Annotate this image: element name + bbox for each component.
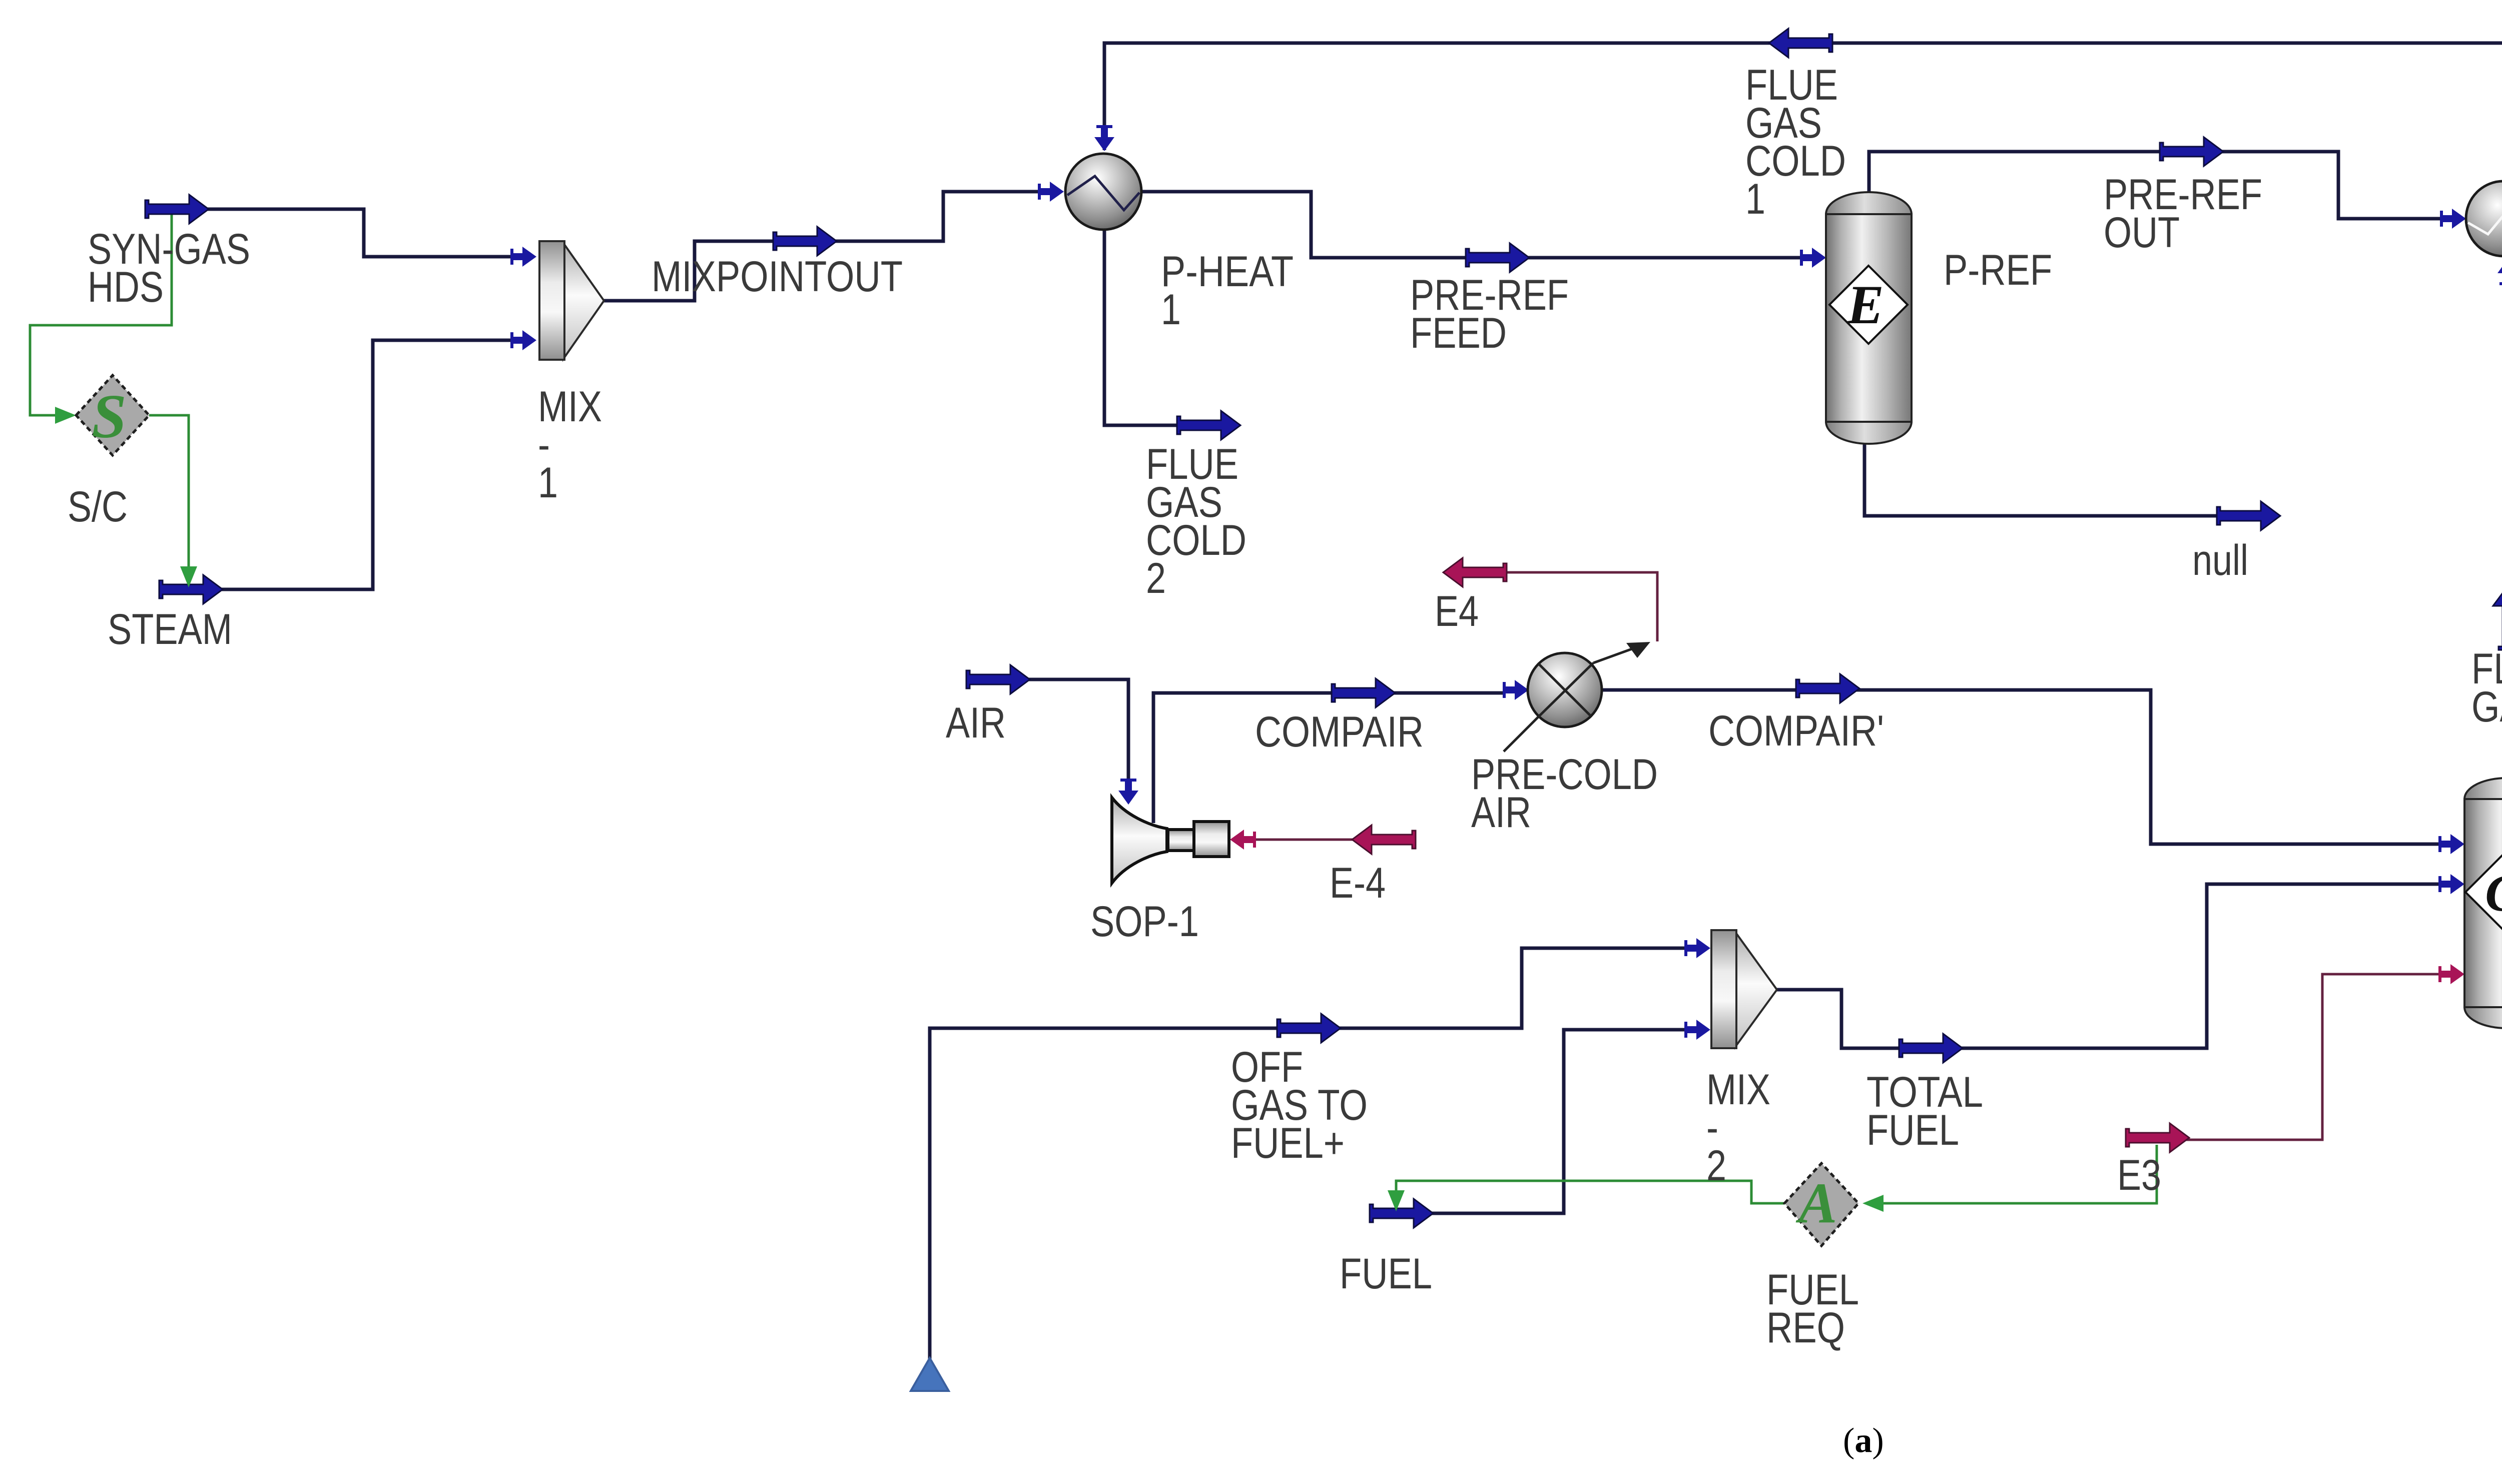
arrowhead green onto FUEL bbox=[1388, 1190, 1405, 1211]
svg-text:GAS: GAS bbox=[2471, 683, 2502, 731]
svg-text:P-REF: P-REF bbox=[1944, 246, 2052, 294]
reactor P-REF bbox=[1826, 192, 1912, 444]
wire COMPAIR' bbox=[1602, 690, 2442, 844]
label PRE-COLD AIR bbox=[1471, 751, 1658, 837]
label TOTAL FUEL bbox=[1866, 1068, 1983, 1154]
svg-text:null: null bbox=[2192, 536, 2248, 584]
label MIXPOINTOUT bbox=[652, 253, 903, 301]
arrowhead into P-HEAT-2 left bbox=[2440, 209, 2466, 229]
label PRE-REF FEED bbox=[1410, 271, 1569, 357]
wire FUEL to MIX-2 bbox=[1423, 1030, 1687, 1213]
arrow FUEL feed bbox=[1370, 1199, 1433, 1228]
cooler PRE-COLD-AIR bbox=[1504, 642, 1650, 752]
arrowhead into SOP-1 box maroon bbox=[1230, 830, 1256, 850]
arrowhead into SOP-1 bbox=[1118, 779, 1138, 805]
wire PRE-REF-OUT bbox=[1869, 152, 2442, 219]
label S/C bbox=[68, 483, 128, 531]
label FLUE GAS COLD 1 bbox=[1745, 61, 1846, 223]
label P-HEAT 1 bbox=[1161, 248, 1294, 334]
label SYN-GAS HDS bbox=[88, 225, 250, 311]
arrowhead into MIX-2 top bbox=[1684, 938, 1710, 958]
label MIX-2 bbox=[1706, 1066, 1770, 1190]
svg-text:HDS: HDS bbox=[88, 263, 164, 311]
arrow STEAM feed bbox=[159, 575, 223, 604]
arrow FLUE-GAS-COLD-1 bbox=[1769, 29, 1832, 58]
arrow COMPAIR' bbox=[1796, 674, 1859, 703]
svg-text:COMPAIR: COMPAIR bbox=[1255, 708, 1424, 756]
svg-text:FUEL: FUEL bbox=[1866, 1106, 1959, 1154]
arrow COMPAIR bbox=[1332, 678, 1395, 707]
wire signal E3 to FUEL-REQ bbox=[1882, 1145, 2157, 1203]
wire TOTAL-FUEL bbox=[1777, 884, 2442, 1048]
label STEAM bbox=[108, 605, 232, 653]
svg-text:S/C: S/C bbox=[68, 483, 128, 531]
arrowhead green into FUEL-REQ bbox=[1862, 1195, 1884, 1212]
arrow TOTAL-FUEL bbox=[1899, 1034, 1963, 1063]
label FUEL bbox=[1340, 1250, 1432, 1298]
svg-text:G: G bbox=[2485, 864, 2502, 922]
wire FLUE-GAS-COLD-2 bbox=[1104, 230, 1177, 425]
label MIX-1 bbox=[538, 383, 602, 507]
arrow FLUE-GAS up bbox=[2493, 586, 2502, 650]
wire AIR to SOP-1 bbox=[1019, 679, 1128, 801]
svg-text:AIR: AIR bbox=[1471, 789, 1531, 837]
arrow E-4 feed bbox=[1352, 825, 1416, 854]
label SOP-1 bbox=[1090, 898, 1199, 946]
wire FLUE-GAS-COLD-1 return bbox=[1104, 43, 2502, 183]
svg-text:1: 1 bbox=[1161, 286, 1181, 334]
arrow SYN-GAS feed bbox=[145, 195, 209, 224]
wire signal S/C to STEAM bbox=[149, 415, 189, 576]
svg-text:E4: E4 bbox=[1435, 587, 1479, 635]
wire signal FUEL-REQ to FUEL bbox=[1396, 1181, 1785, 1205]
calculator FUEL-REQ bbox=[1784, 1163, 1858, 1246]
arrow E3 feed bbox=[2126, 1123, 2189, 1152]
wire PRE-REF-FEED bbox=[1141, 192, 1804, 258]
svg-text:AIR: AIR bbox=[946, 699, 1006, 747]
arrowhead into REF-F in2 bbox=[2438, 874, 2464, 894]
arrow OFF-GAS bbox=[1277, 1014, 1341, 1043]
svg-text:STEAM: STEAM bbox=[108, 605, 232, 653]
label FUEL REQ bbox=[1766, 1266, 1859, 1352]
svg-text:1: 1 bbox=[538, 459, 558, 507]
wire STEAM to MIX-1 bbox=[212, 340, 515, 589]
svg-text:E: E bbox=[1846, 274, 1884, 335]
connector triangle OFF-GAS source bbox=[911, 1358, 949, 1391]
wire MIXPOINTOUT bbox=[603, 192, 1039, 301]
diamond E of P-REF bbox=[1829, 266, 1908, 344]
label COMPAIR bbox=[1255, 708, 1424, 756]
label null bbox=[2192, 536, 2248, 584]
heater P-HEAT-1 bbox=[1065, 154, 1141, 230]
arrowhead into PRE-COLD bbox=[1503, 680, 1529, 700]
wire SYN-GAS to MIX-1 bbox=[199, 209, 515, 257]
compressor SOP-1 bbox=[1112, 798, 1229, 883]
arrow PRE-REF-FEED bbox=[1466, 243, 1529, 272]
svg-text:REQ: REQ bbox=[1766, 1304, 1845, 1352]
wire E3 heat bbox=[2182, 974, 2442, 1140]
label FLUE GAS COLD 2 bbox=[1146, 440, 1246, 602]
svg-text:FUEL: FUEL bbox=[1340, 1250, 1432, 1298]
wire OFF-GAS to MIX-2 bbox=[930, 948, 1687, 1360]
arrowhead green into S/C bbox=[55, 407, 76, 424]
arrow FLUE-GAS-COLD-2 product bbox=[1177, 411, 1240, 440]
svg-text:2: 2 bbox=[1706, 1142, 1726, 1190]
label FLUE GAS bbox=[2471, 645, 2502, 731]
svg-text:MIXPOINTOUT: MIXPOINTOUT bbox=[652, 253, 903, 301]
arrowhead into P-REF bbox=[1800, 248, 1826, 268]
arrowhead into P-HEAT-2 bottom bbox=[2497, 259, 2502, 285]
label E4 bbox=[1435, 587, 1479, 635]
svg-text:FUEL+: FUEL+ bbox=[1231, 1119, 1345, 1167]
diamond G of REF-F bbox=[2465, 851, 2502, 933]
firebox REF-F bbox=[2464, 778, 2502, 1028]
arrowhead into MIX-2 bottom bbox=[1684, 1020, 1710, 1040]
wire signal SYN-GAS to S/C bbox=[30, 211, 172, 415]
svg-text:1: 1 bbox=[1745, 175, 1765, 223]
label OFF GAS TO FUEL+ bbox=[1231, 1043, 1368, 1167]
svg-text:OUT: OUT bbox=[2104, 209, 2180, 257]
svg-text:FEED: FEED bbox=[1410, 309, 1507, 357]
svg-text:S: S bbox=[92, 382, 127, 451]
label E3 bbox=[2117, 1151, 2161, 1199]
svg-text:E-4: E-4 bbox=[1330, 859, 1386, 907]
wire E-4 heat bbox=[1236, 839, 1356, 841]
arrow PRE-REF-OUT bbox=[2160, 137, 2223, 166]
mixer MIX-2 bbox=[1711, 930, 1777, 1048]
arrowhead into P-HEAT-1 top bbox=[1094, 125, 1114, 151]
arrowhead into MIX-1 top bbox=[510, 247, 536, 267]
arrow null product bbox=[2217, 501, 2280, 530]
label P-REF bbox=[1944, 246, 2052, 294]
selector S/C bbox=[76, 375, 149, 455]
svg-text:SOP-1: SOP-1 bbox=[1090, 898, 1199, 946]
arrow E4 product bbox=[1443, 558, 1507, 587]
mixer MIX-1 bbox=[539, 241, 604, 360]
arrow MIXPOINTOUT bbox=[773, 227, 837, 256]
label E-4 bbox=[1330, 859, 1386, 907]
svg-text:E3: E3 bbox=[2117, 1151, 2161, 1199]
wire null from P-REF bbox=[1864, 441, 2217, 516]
svg-text:2: 2 bbox=[1146, 554, 1166, 602]
arrowhead into P-HEAT-1 left bbox=[1038, 182, 1064, 202]
label PRE-REF OUT bbox=[2104, 171, 2262, 257]
label AIR bbox=[946, 699, 1006, 747]
label COMPAIR' bbox=[1708, 707, 1884, 755]
arrowhead into MIX-1 bottom bbox=[510, 330, 536, 350]
svg-text:COMPAIR': COMPAIR' bbox=[1708, 707, 1884, 755]
wire COMPAIR bbox=[1153, 693, 1505, 823]
svg-text:(a): (a) bbox=[1843, 1421, 1884, 1460]
heater P-HEAT-2 bbox=[2466, 181, 2502, 256]
arrowhead into REF-F in3 maroon bbox=[2438, 964, 2464, 984]
svg-text:A: A bbox=[1796, 1171, 1837, 1235]
arrowhead green onto STEAM bbox=[180, 566, 197, 587]
arrowhead into REF-F in1 bbox=[2438, 834, 2464, 854]
arrow AIR feed bbox=[966, 665, 1030, 694]
wire E4 heat bbox=[1496, 572, 1657, 641]
